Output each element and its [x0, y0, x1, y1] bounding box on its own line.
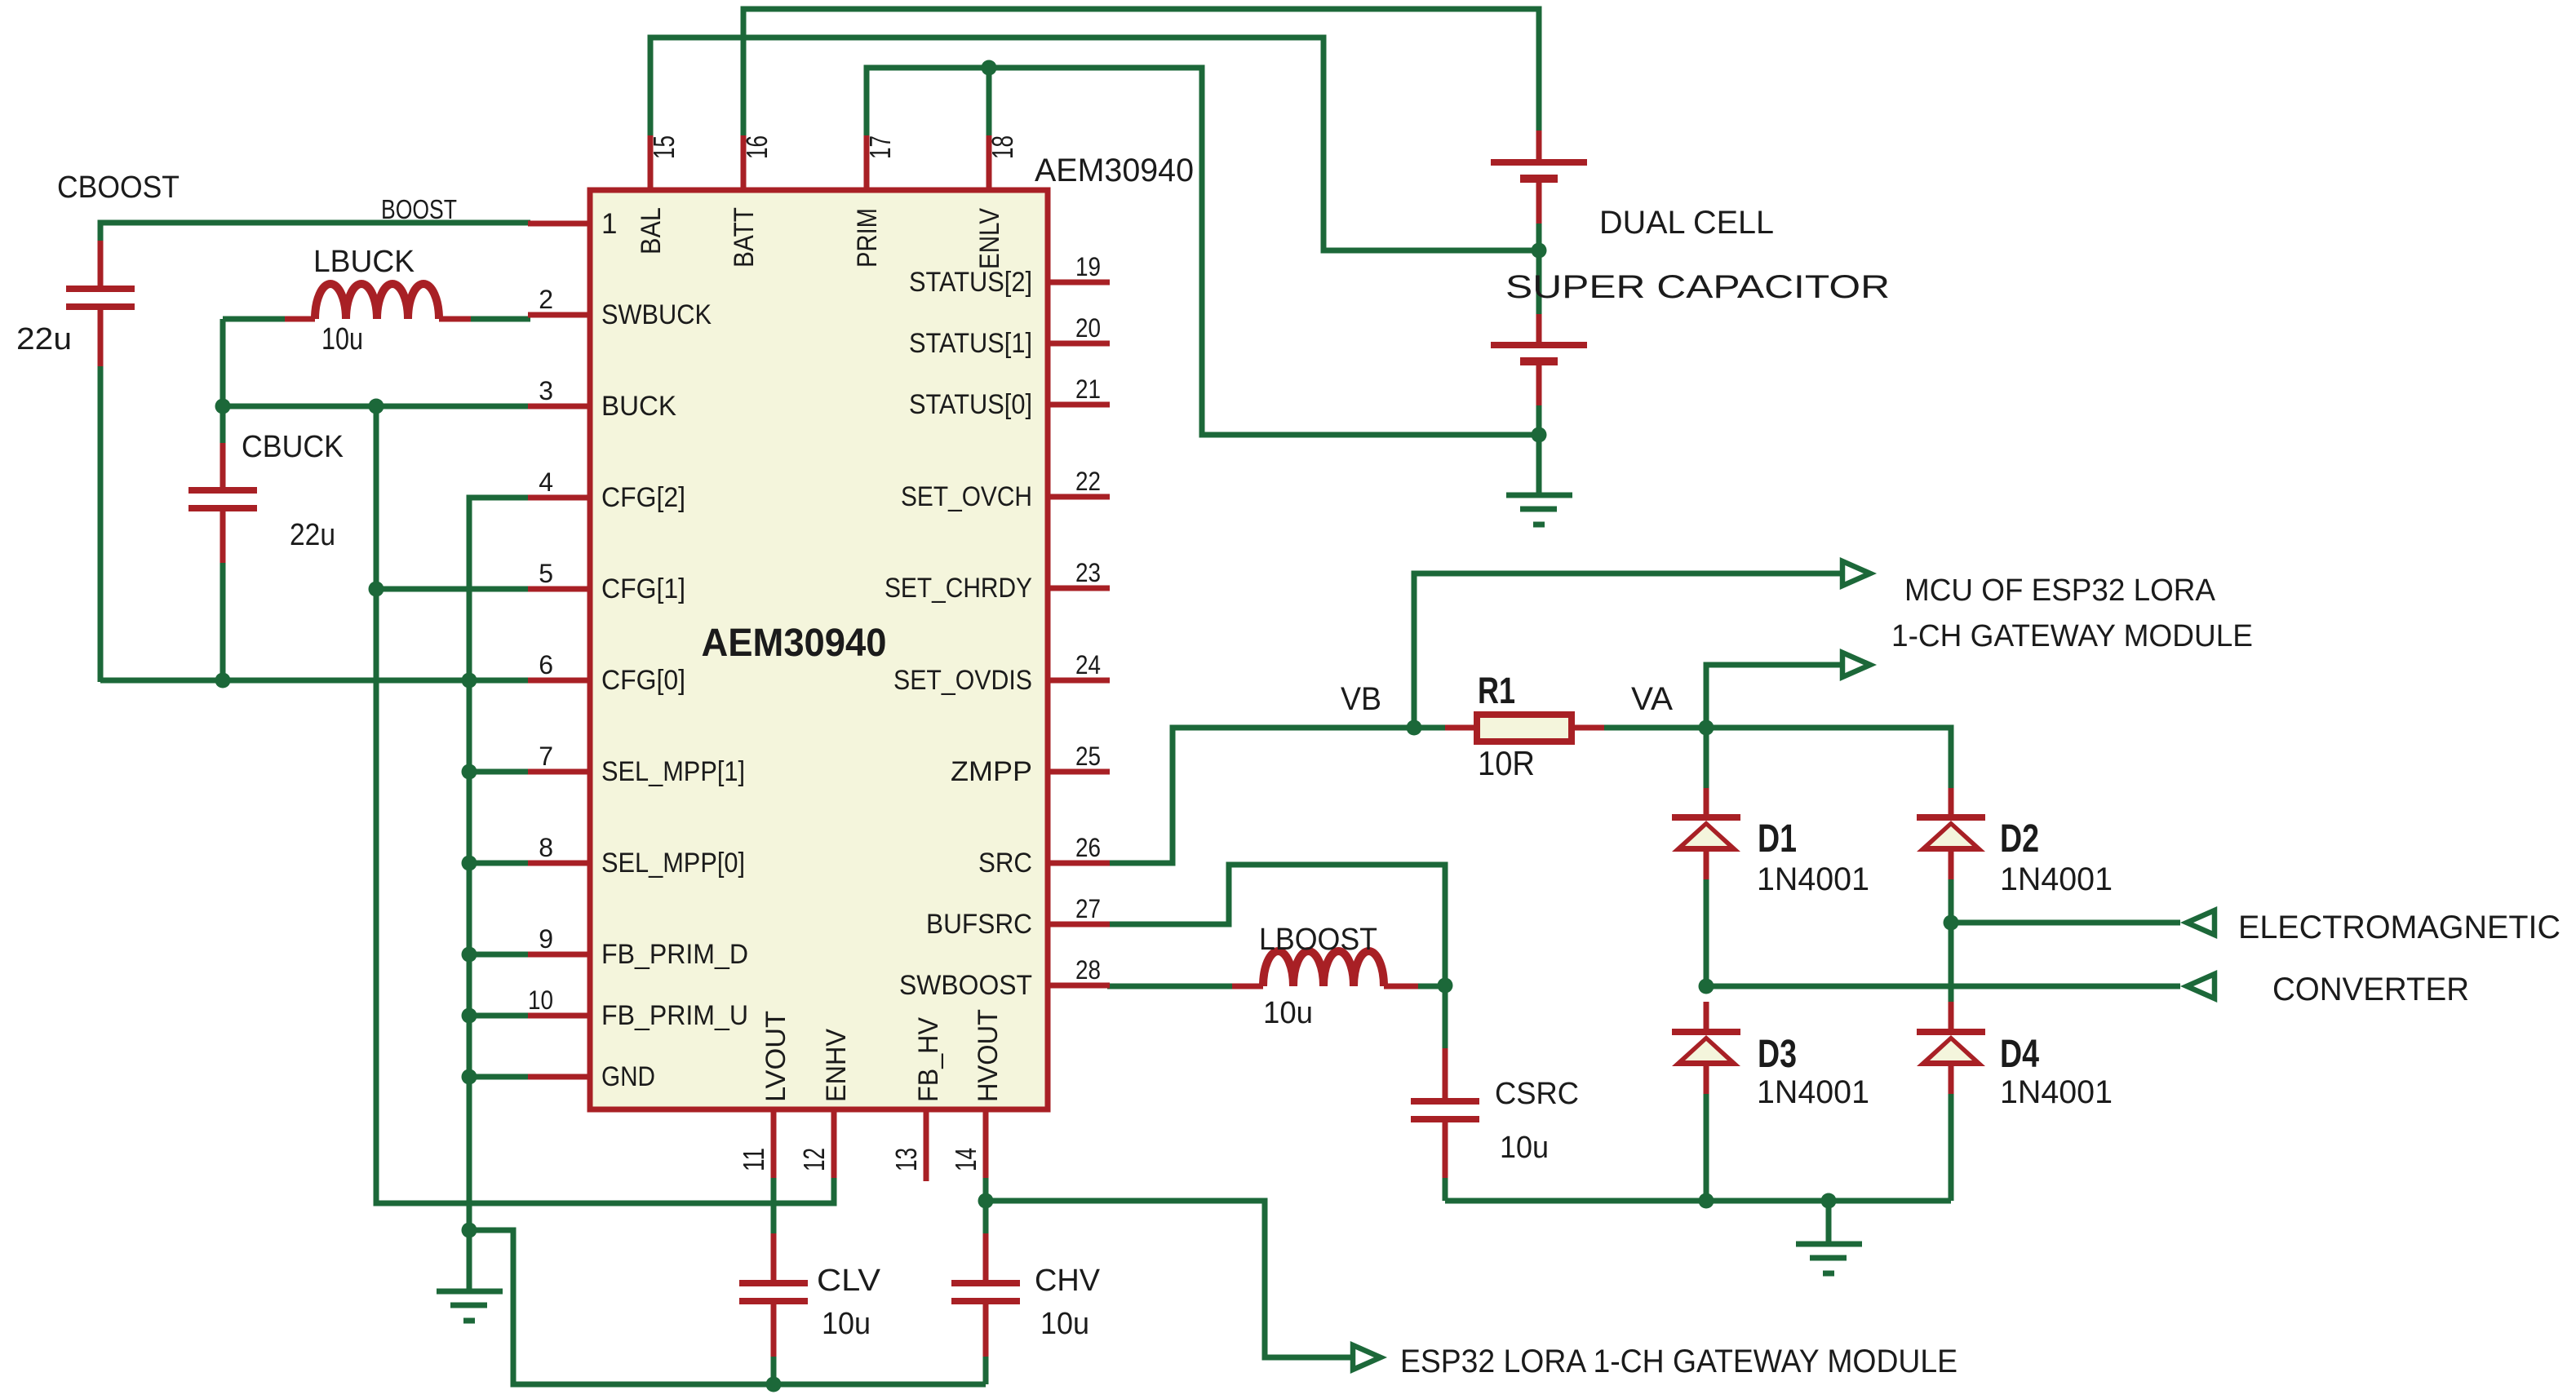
svg-text:10u: 10u [1500, 1131, 1549, 1165]
svg-text:ENHV: ENHV [821, 1029, 852, 1102]
svg-text:4: 4 [539, 467, 553, 497]
svg-text:STATUS[2]: STATUS[2] [909, 267, 1032, 298]
svg-text:19: 19 [1075, 252, 1101, 281]
svg-text:D2: D2 [2000, 817, 2039, 861]
svg-text:SWBOOST: SWBOOST [899, 970, 1032, 1001]
svg-text:6: 6 [539, 650, 553, 680]
svg-text:VB: VB [1341, 681, 1381, 717]
svg-text:BOOST: BOOST [381, 194, 457, 224]
svg-text:SWBUCK: SWBUCK [601, 299, 712, 330]
svg-text:8: 8 [539, 833, 553, 862]
svg-text:BATT: BATT [729, 207, 760, 268]
svg-text:SUPER CAPACITOR: SUPER CAPACITOR [1505, 269, 1890, 305]
svg-text:D1: D1 [1758, 817, 1797, 861]
svg-text:17: 17 [863, 135, 897, 159]
svg-text:GND: GND [601, 1061, 655, 1092]
svg-text:26: 26 [1075, 833, 1101, 862]
svg-text:AEM30940: AEM30940 [702, 622, 887, 665]
svg-text:18: 18 [986, 135, 1019, 159]
svg-text:12: 12 [797, 1148, 831, 1171]
svg-text:1N4001: 1N4001 [2000, 861, 2113, 897]
svg-text:CHV: CHV [1035, 1264, 1101, 1298]
svg-text:1-CH GATEWAY MODULE: 1-CH GATEWAY MODULE [1891, 619, 2253, 653]
svg-text:1: 1 [601, 208, 617, 240]
svg-text:SET_CHRDY: SET_CHRDY [885, 573, 1032, 604]
svg-text:15: 15 [647, 135, 681, 159]
svg-text:AEM30940: AEM30940 [1035, 153, 1194, 188]
svg-text:22u: 22u [290, 518, 335, 552]
svg-text:3: 3 [539, 376, 553, 405]
svg-text:SEL_MPP[0]: SEL_MPP[0] [601, 848, 745, 879]
svg-text:SET_OVDIS: SET_OVDIS [893, 665, 1032, 696]
svg-text:STATUS[0]: STATUS[0] [909, 389, 1032, 420]
svg-text:24: 24 [1075, 650, 1101, 680]
svg-text:10: 10 [528, 985, 553, 1015]
svg-text:13: 13 [889, 1148, 923, 1171]
svg-text:10u: 10u [1263, 996, 1313, 1030]
svg-text:CFG[0]: CFG[0] [601, 665, 685, 696]
svg-text:10u: 10u [321, 322, 363, 356]
svg-text:22u: 22u [16, 322, 72, 356]
svg-text:CBOOST: CBOOST [57, 170, 180, 205]
svg-text:FB_PRIM_D: FB_PRIM_D [601, 939, 748, 970]
svg-text:ELECTROMAGNETIC: ELECTROMAGNETIC [2238, 910, 2560, 945]
svg-text:D3: D3 [1758, 1033, 1797, 1076]
svg-text:11: 11 [737, 1148, 770, 1171]
svg-text:10u: 10u [822, 1307, 871, 1341]
svg-text:SET_OVCH: SET_OVCH [901, 481, 1032, 512]
svg-text:CFG[1]: CFG[1] [601, 573, 685, 604]
svg-text:23: 23 [1075, 558, 1101, 587]
svg-text:20: 20 [1075, 313, 1101, 343]
svg-text:LBUCK: LBUCK [313, 245, 415, 279]
svg-text:1N4001: 1N4001 [1757, 1074, 1869, 1110]
svg-text:LVOUT: LVOUT [760, 1011, 791, 1102]
svg-text:22: 22 [1075, 467, 1101, 496]
svg-text:BUFSRC: BUFSRC [926, 909, 1032, 940]
svg-text:25: 25 [1075, 742, 1101, 771]
svg-text:10R: 10R [1478, 744, 1535, 782]
svg-text:CBUCK: CBUCK [242, 430, 344, 464]
svg-text:BUCK: BUCK [601, 391, 676, 422]
svg-text:CFG[2]: CFG[2] [601, 482, 685, 513]
svg-text:HVOUT: HVOUT [973, 1009, 1004, 1102]
svg-text:7: 7 [539, 742, 553, 771]
svg-text:BAL: BAL [636, 207, 667, 255]
svg-text:ZMPP: ZMPP [951, 756, 1032, 787]
svg-text:DUAL CELL: DUAL CELL [1599, 205, 1774, 241]
svg-text:STATUS[1]: STATUS[1] [909, 328, 1032, 359]
svg-text:5: 5 [539, 559, 553, 588]
svg-text:10u: 10u [1040, 1307, 1089, 1341]
svg-text:D4: D4 [2000, 1033, 2039, 1076]
svg-text:LBOOST: LBOOST [1259, 923, 1377, 957]
svg-text:1N4001: 1N4001 [2000, 1074, 2113, 1110]
svg-text:MCU OF ESP32 LORA: MCU OF ESP32 LORA [1904, 573, 2216, 608]
svg-text:FB_HV: FB_HV [913, 1017, 944, 1102]
svg-text:1N4001: 1N4001 [1757, 861, 1869, 897]
svg-text:SRC: SRC [978, 848, 1032, 879]
svg-text:CONVERTER: CONVERTER [2272, 972, 2469, 1007]
svg-text:21: 21 [1075, 374, 1101, 404]
svg-text:ENLV: ENLV [974, 208, 1005, 269]
svg-text:CSRC: CSRC [1495, 1077, 1579, 1111]
svg-text:14: 14 [949, 1148, 982, 1171]
svg-text:PRIM: PRIM [852, 208, 883, 268]
svg-text:ESP32 LORA 1-CH GATEWAY MODULE: ESP32 LORA 1-CH GATEWAY MODULE [1400, 1344, 1957, 1379]
svg-text:9: 9 [539, 924, 553, 954]
svg-text:28: 28 [1075, 955, 1101, 985]
svg-text:R1: R1 [1478, 670, 1515, 711]
svg-text:FB_PRIM_U: FB_PRIM_U [601, 1000, 748, 1031]
svg-text:27: 27 [1075, 894, 1101, 923]
svg-text:16: 16 [740, 135, 774, 159]
svg-text:CLV: CLV [817, 1264, 881, 1298]
svg-text:VA: VA [1631, 681, 1673, 717]
svg-text:2: 2 [539, 285, 553, 314]
svg-text:SEL_MPP[1]: SEL_MPP[1] [601, 756, 745, 787]
